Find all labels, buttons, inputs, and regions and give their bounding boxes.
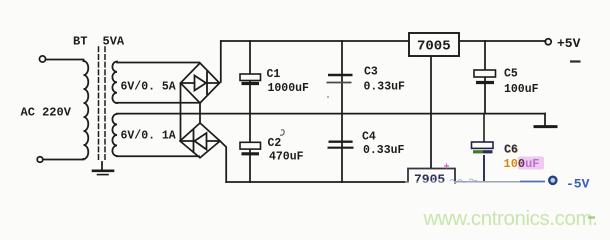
wire: winding1 top to bridge D1 top corner bbox=[117, 62, 199, 64]
wire: C6 lower lead bbox=[483, 155, 485, 182]
svg-text:0.33uF: 0.33uF bbox=[364, 80, 406, 93]
wire: primary bottom lead bbox=[43, 158, 84, 161]
svg-text:100uF: 100uF bbox=[504, 83, 539, 96]
watermark artifact: faint blue scribble bbox=[450, 179, 477, 183]
wire: C1 vertical bbox=[249, 41, 251, 114]
wire: U1 7005 ground pin down to mid rail and U2 bbox=[430, 56, 432, 168]
svg-text:7005: 7005 bbox=[417, 39, 451, 55]
transformer secondary winding 2 (6V/0.1A) bbox=[112, 114, 117, 156]
svg-text:+5V: +5V bbox=[557, 36, 581, 51]
transformer core (dashed) bbox=[98, 47, 100, 162]
dust dot bbox=[327, 96, 329, 98]
capacitor C3 (plates) bbox=[327, 75, 353, 83]
wire: C3 vertical bbox=[341, 41, 343, 114]
transformer secondary winding 1 (6V/0.5A) bbox=[112, 62, 117, 104]
svg-text:C3: C3 bbox=[364, 66, 378, 79]
wire: -5V bottom rail (faded right part) bbox=[455, 181, 520, 183]
svg-text:470uF: 470uF bbox=[269, 150, 304, 163]
bridge rectifier D2 (diamond) bbox=[180, 123, 220, 158]
ground: transformer core ground bbox=[101, 162, 103, 170]
node: -5V output terminal bbox=[549, 177, 556, 184]
svg-text:-5V: -5V bbox=[566, 177, 590, 192]
wire: -5V bottom rail (left solid part) bbox=[226, 181, 408, 183]
ground: right common ground bbox=[544, 114, 546, 126]
dust squiggle bbox=[280, 130, 284, 135]
stray mark: dash under +5V bbox=[570, 60, 581, 62]
transformer BT primary winding bbox=[84, 61, 89, 159]
watermark artifact: magenta cross bbox=[444, 164, 449, 169]
svg-text:6V/0. 5A: 6V/0. 5A bbox=[121, 81, 176, 94]
wire: C5 vertical bbox=[484, 41, 486, 114]
wire: winding2 bottom to bridge D2 bottom corner bbox=[117, 155, 199, 157]
wire: common mid rail bbox=[117, 113, 545, 115]
svg-text:6V/0. 1A: 6V/0. 1A bbox=[121, 130, 176, 143]
node: AC input terminal top bbox=[39, 56, 45, 62]
node: AC input terminal bottom bbox=[37, 157, 43, 163]
svg-text:0.33uF: 0.33uF bbox=[363, 144, 405, 157]
wire: C4 vertical bbox=[341, 114, 343, 182]
svg-text:C2: C2 bbox=[268, 137, 282, 150]
diode inside D1 (pointing right) bbox=[181, 82, 195, 84]
svg-text:www.cntronics.com.: www.cntronics.com. bbox=[423, 207, 598, 230]
capacitor C6 (electrolytic symbol, watermark tinted) bbox=[472, 114, 494, 182]
svg-text:100uF: 100uF bbox=[504, 157, 540, 171]
diode inside D2 (pointing left) bbox=[181, 140, 193, 142]
wire: winding1 bottom to bridge D1 bottom corner bbox=[117, 102, 199, 104]
svg-text:AC 220V: AC 220V bbox=[21, 106, 72, 120]
regulator U2 7905 (partially faded box) bbox=[405, 164, 477, 188]
svg-text:5VA: 5VA bbox=[103, 35, 125, 49]
wire: C2 vertical bbox=[249, 114, 251, 182]
svg-text:C1: C1 bbox=[267, 68, 281, 81]
wire: +5V top rail bbox=[221, 40, 546, 42]
regulator U1 7005 bbox=[409, 33, 459, 56]
wire: D1 bottom corner down to D2 top corner bbox=[199, 103, 201, 123]
node: +5V output terminal bbox=[545, 39, 551, 45]
svg-text:C4: C4 bbox=[362, 131, 376, 144]
svg-text:C6: C6 bbox=[504, 143, 518, 156]
wire: primary top lead bbox=[46, 60, 84, 62]
svg-text:1000uF: 1000uF bbox=[268, 82, 310, 95]
capacitor C5 (electrolytic symbol) bbox=[474, 70, 496, 83]
svg-text:BT: BT bbox=[73, 35, 87, 49]
capacitor C1 (electrolytic symbol) bbox=[240, 74, 261, 84]
capacitor C2 (electrolytic symbol) bbox=[240, 142, 261, 154]
bridge rectifier D1 (diamond) bbox=[181, 63, 220, 103]
wire: D1 left corner down to D2 left corner bbox=[180, 84, 182, 140]
wire: D1 right corner up to +V rail bbox=[220, 41, 222, 82]
label: C6 value (watermark tinted) bbox=[518, 157, 544, 170]
capacitor C4 (plates) bbox=[328, 142, 354, 148]
wire: D2 right corner down to -V rail bbox=[220, 141, 226, 182]
svg-text:C5: C5 bbox=[504, 67, 518, 80]
